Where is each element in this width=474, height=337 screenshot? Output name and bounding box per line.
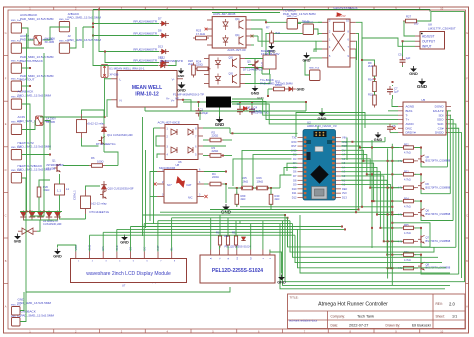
svg-text:R15: R15 [368, 92, 373, 96]
pad HEATOUT2BACK [11, 173, 21, 183]
svg-text:B: B [466, 259, 468, 263]
wire lcd pins [58, 245, 76, 252]
svg-text:100Ω: 100Ω [97, 159, 104, 163]
wire tc nest [232, 99, 386, 115]
svg-text:VF: VF [175, 97, 179, 101]
wire mid risers [199, 111, 201, 120]
svg-text:Q11 CUS10S30,H3F: Q11 CUS10S30,H3F [107, 133, 133, 137]
svg-text:10kΩ: 10kΩ [257, 179, 264, 183]
fuse XF2 [36, 116, 44, 126]
fuse XF3 [101, 65, 108, 78]
wire gnd pads [20, 292, 24, 311]
pad JBACK [59, 22, 69, 32]
svg-text:GND: GND [120, 241, 129, 245]
wire heatout pads [22, 67, 31, 69]
svg-text:SMD_Pad: SMD_Pad [11, 60, 22, 62]
svg-text:PAD_SMD_13.5x5.5MM: PAD_SMD_13.5x5.5MM [260, 81, 293, 85]
svg-text:RX0: RX0 [291, 140, 297, 144]
diode D16 [101, 185, 106, 189]
svg-text:GND: GND [318, 116, 327, 121]
svg-text:Q10 CUS10S30,H3F: Q10 CUS10S30,H3F [108, 187, 134, 191]
wire lcd bus [90, 215, 346, 235]
resistor R28 [192, 65, 196, 75]
wire arduino top gnd [321, 108, 323, 110]
svg-text:4.7kΩ: 4.7kΩ [404, 259, 411, 262]
svg-text:R7: R7 [266, 26, 270, 30]
svg-text:CUS10S30,H3F: CUS10S30,H3F [43, 222, 62, 226]
wire buzzer [254, 69, 256, 85]
power module U1 MEAN WELL IRM-10-12 [117, 71, 177, 108]
svg-text:D13: D13 [342, 195, 347, 199]
svg-text:ACPL-827-00: ACPL-827-00 [227, 48, 246, 52]
svg-text:U8: U8 [176, 163, 180, 167]
svg-text:GND: GND [53, 255, 62, 259]
svg-text:SMD_Pad: SMD_Pad [309, 67, 320, 69]
svg-text:D: D [466, 168, 468, 172]
diode D20 [20, 212, 26, 217]
resistor R40 [269, 194, 273, 204]
svg-text:HEATOUT: HEATOUT [20, 78, 35, 82]
nc mark U8 left [153, 182, 156, 185]
svg-text:BS170FTA_CS08898: BS170FTA_CS08898 [426, 185, 451, 189]
svg-text:E: E [5, 122, 7, 126]
capacitor C2 [239, 106, 241, 109]
svg-text:Atmega Hot Runner Controller: Atmega Hot Runner Controller [318, 302, 388, 308]
diode D17 [241, 237, 245, 241]
capacitor C3 [251, 106, 253, 109]
svg-text:NC*: NC* [167, 183, 172, 187]
pad J2 [59, 43, 69, 53]
pad ACIN2 [11, 43, 21, 53]
resistor R15 [373, 95, 377, 105]
svg-text:REV:: REV: [436, 302, 443, 306]
gnd arduino top [318, 113, 325, 117]
svg-text:DTC144EET1G: DTC144EET1G [90, 210, 110, 214]
resistor R4 [210, 182, 221, 186]
gnd meanwell V- [178, 71, 184, 74]
transistor rows Q6-Q8 [398, 144, 451, 274]
wire lcd loop [26, 212, 230, 292]
svg-text:E: E [466, 122, 468, 126]
svg-text:RFU02VSM6STR: RFU02VSM6STR [133, 31, 158, 35]
diode D13 [158, 44, 169, 54]
svg-text:G: G [466, 31, 468, 35]
resistor R14 [373, 82, 377, 92]
wire mid verticals [142, 117, 144, 236]
wire V+ rail [145, 110, 306, 112]
svg-text:DRDY#: DRDY# [406, 131, 417, 135]
wire k1 down [355, 57, 357, 212]
relay U12 coil [81, 196, 91, 209]
regulator U9 LM317 [420, 32, 445, 50]
svg-text:220Ω: 220Ω [196, 62, 203, 66]
svg-text:2kΩ: 2kΩ [188, 62, 193, 66]
svg-text:Date:: Date: [331, 323, 339, 327]
wire k1 right nest [356, 22, 362, 90]
pad TCBACK [287, 19, 298, 30]
svg-text:RFU02VSM6STR: RFU02VSM6STR [133, 47, 158, 51]
diode D21 [29, 212, 35, 217]
svg-text:D8: D8 [293, 178, 297, 182]
svg-text:Q7: Q7 [426, 236, 430, 240]
wire encoder [210, 218, 212, 250]
gnd c5 [410, 69, 417, 72]
svg-text:4.7kΩ: 4.7kΩ [404, 205, 411, 208]
arduino pins [291, 136, 348, 200]
svg-text:Q6: Q6 [426, 155, 430, 159]
wire trunk left-top [83, 10, 93, 28]
svg-text:PAD_SMD_13.5x5.5MM: PAD_SMD_13.5x5.5MM [20, 17, 54, 21]
svg-text:F1 MF-MSMF050-2-TP: F1 MF-MSMF050-2-TP [173, 92, 204, 96]
svg-text:Q05: Q05 [229, 57, 234, 59]
svg-text:DTC144EET1G: DTC144EET1G [96, 142, 116, 146]
resistor R3 [210, 154, 221, 158]
svg-text:Tech Tank: Tech Tank [357, 315, 374, 319]
optocoupler U4 ACPL-827-00CB [207, 17, 251, 48]
svg-text:SMD_Pad: SMD_Pad [11, 170, 22, 172]
svg-text:ACPL-827-00CE: ACPL-827-00CE [158, 120, 180, 124]
diode D22 [37, 212, 43, 217]
wire diode feeds [93, 23, 159, 25]
svg-text:Q05: Q05 [229, 73, 234, 75]
optocoupler U3 ACPL-827-00 [204, 55, 245, 87]
wire r31 [268, 88, 272, 90]
svg-text:1µF: 1µF [394, 90, 399, 94]
svg-text:waveshare 2inch LCD Display Mo: waveshare 2inch LCD Display Module [86, 271, 171, 277]
diode D24 [54, 212, 60, 217]
svg-text:V-: V- [172, 77, 175, 81]
resistor R2 [210, 138, 221, 142]
svg-text:2kΩ: 2kΩ [241, 197, 246, 201]
resistor R26 [37, 187, 41, 197]
nc mark U8 right [204, 195, 207, 198]
pad GND [12, 307, 21, 316]
wire u8 [204, 183, 208, 185]
diode D14 [289, 87, 293, 92]
svg-text:17.4kΩ: 17.4kΩ [196, 32, 205, 36]
svg-text:GND: GND [297, 88, 305, 92]
svg-text:Company:: Company: [331, 315, 346, 319]
svg-text:REF: REF [342, 187, 348, 191]
wire bundle peel-offs [430, 167, 459, 274]
svg-text:PAD_SMD_13.5x5.5MM: PAD_SMD_13.5x5.5MM [18, 145, 52, 149]
svg-text:BS170FTA_CS08898: BS170FTA_CS08898 [426, 159, 451, 163]
svg-text:R6: R6 [91, 156, 95, 160]
svg-text:R27: R27 [406, 15, 412, 19]
pad HEATOUTBACK [11, 63, 21, 73]
svg-text:7kΩ: 7kΩ [275, 31, 280, 35]
resistor R7 [270, 33, 274, 43]
svg-text:Q1: Q1 [52, 159, 56, 163]
diode D7 [158, 16, 169, 26]
svg-text:10kΩ: 10kΩ [242, 179, 249, 183]
pad ACINBACK [11, 99, 21, 109]
svg-text:RST: RST [291, 144, 297, 148]
svg-text:PAD_SMD_13.5x5.5MM: PAD_SMD_13.5x5.5MM [18, 301, 52, 305]
svg-text:SMD_Pad: SMD_Pad [11, 78, 22, 80]
inductor L1 [55, 184, 65, 195]
svg-text:OUTPUT: OUTPUT [422, 39, 435, 43]
svg-text:D: D [5, 168, 7, 172]
resistor R26b [257, 186, 268, 190]
wire meanwell top [93, 27, 158, 66]
svg-text:LM317TF_C30/430T: LM317TF_C30/430T [428, 26, 456, 30]
resistor R25b [242, 186, 253, 190]
wire encoder bus right [288, 218, 431, 247]
wire diode row [20, 211, 62, 213]
display module U7 waveshare LCD [71, 245, 187, 283]
wire arduino left bundle [233, 150, 455, 288]
gnd meanwell 2 [178, 85, 186, 89]
fuse F1 MF-MSMF050-2-TP [206, 97, 231, 108]
wire left trunks [26, 34, 28, 213]
nc marks U4 [205, 28, 208, 31]
title block grid [288, 294, 466, 329]
svg-text:A: A [466, 305, 468, 309]
svg-text:D8: D8 [158, 28, 162, 32]
svg-text:tech-tank.net/admin-docs: tech-tank.net/admin-docs [289, 320, 318, 323]
buzzer BUZZER1 [263, 55, 276, 69]
svg-text:IRM-10-12: IRM-10-12 [135, 92, 159, 98]
relay K1 [322, 19, 356, 67]
svg-text:D6: D6 [293, 170, 297, 174]
resistor R22 [234, 236, 237, 245]
svg-text:N/C: N/C [188, 196, 193, 200]
bridge D30 [22, 228, 28, 234]
diode D15 [101, 127, 106, 131]
optotriac U8 MOC3023M [157, 169, 204, 204]
svg-text:N: N [120, 98, 122, 102]
svg-text:4.7kΩ: 4.7kΩ [404, 179, 411, 182]
svg-text:BS170FTA_CS08898: BS170FTA_CS08898 [426, 212, 451, 216]
svg-text:GND: GND [215, 122, 224, 127]
svg-text:TITLE:: TITLE: [290, 295, 299, 299]
svg-text:2.0: 2.0 [449, 301, 455, 306]
svg-text:RFU02VSM6STR: RFU02VSM6STR [160, 59, 183, 63]
resistor R27 [406, 19, 417, 23]
svg-text:XF-00B: XF-00B [45, 40, 55, 44]
svg-text:220Ω: 220Ω [212, 175, 219, 179]
svg-text:A: A [5, 305, 7, 309]
svg-text:D12: D12 [292, 195, 297, 199]
nc mark u5 [392, 127, 395, 130]
wire u5 bundle [448, 111, 462, 278]
svg-text:C2(U)VXXXBACK: C2(U)VXXXBACK [333, 6, 357, 10]
resistor R10 [218, 236, 221, 245]
svg-text:D9: D9 [293, 183, 297, 187]
pad ACIN [11, 124, 21, 134]
marker K1 led [337, 12, 343, 16]
svg-text:SMD_Pad: SMD_Pad [303, 22, 314, 24]
transistor Q10 [102, 191, 104, 199]
transistor Q11 [101, 137, 103, 145]
svg-text:INPUT: INPUT [422, 44, 432, 48]
svg-text:0.33µF: 0.33µF [200, 111, 209, 115]
svg-text:B: B [5, 259, 7, 263]
svg-text:Q5: Q5 [247, 59, 251, 63]
svg-text:DAT: DAT [187, 183, 192, 187]
svg-text:ARDUINO_NANO_V3: ARDUINO_NANO_V3 [307, 124, 337, 128]
fuse XF1 [34, 36, 42, 46]
gnd tc [303, 55, 310, 58]
svg-text:D13: D13 [158, 44, 163, 48]
svg-text:GND: GND [14, 240, 22, 244]
wire pads top [22, 28, 34, 40]
svg-text:D10: D10 [292, 187, 297, 191]
resistor R9 [373, 66, 377, 76]
svg-text:Sheet:: Sheet: [436, 315, 445, 319]
wire V+ out [183, 100, 191, 111]
resistor R11 [226, 236, 229, 245]
svg-text:100: 100 [414, 22, 419, 26]
resistor R24 [197, 67, 208, 71]
resistor R6 [92, 164, 103, 168]
wire u6 right [203, 139, 208, 141]
wire tc pads [298, 23, 302, 25]
capacitor C7 [389, 86, 391, 89]
gnd transistor rows [375, 135, 382, 138]
svg-text:COM_1: COM_1 [73, 190, 77, 200]
svg-text:D7: D7 [158, 16, 162, 20]
pad TCplusBACK [303, 24, 314, 35]
svg-text:L1: L1 [66, 187, 70, 191]
svg-text:SMD_Pad: SMD_Pad [11, 305, 22, 307]
wire fuse [183, 101, 206, 103]
wire r25 net [228, 187, 242, 189]
svg-text:220Ω: 220Ω [212, 134, 219, 138]
svg-text:C5: C5 [398, 52, 402, 56]
svg-text:3V3: 3V3 [342, 191, 347, 195]
wire u5 caps [402, 55, 404, 57]
diode D12b symbol [161, 63, 165, 68]
junction encoder [344, 228, 346, 230]
svg-text:GND: GND [277, 281, 286, 285]
svg-text:SMD_Pad: SMD_Pad [11, 316, 22, 318]
transistor Q9 [254, 62, 256, 70]
wire lm317 [404, 21, 415, 36]
diode D12 [158, 55, 169, 65]
svg-text:MEAN WELL: MEAN WELL [132, 85, 162, 91]
gnd u8 [222, 207, 230, 211]
mcu module U2 Arduino Nano V3 [303, 130, 336, 201]
svg-text:SMD_Pad: SMD_Pad [11, 147, 22, 149]
svg-text:SMD_Pad: SMD_Pad [11, 122, 22, 124]
svg-text:BS170FTA_CS08898: BS170FTA_CS08898 [426, 239, 451, 243]
svg-text:C: C [5, 213, 7, 217]
transistor Q5 [254, 61, 256, 69]
optocoupler U6 ACPL-827-00CE [160, 125, 203, 160]
gnd bottom left [14, 236, 21, 239]
svg-text:GND: GND [374, 138, 383, 142]
svg-text:V+: V+ [166, 97, 170, 101]
pad HEATOUT2 [11, 150, 21, 160]
svg-text:XF-00B: XF-00B [110, 72, 119, 76]
gnd lcd mid [121, 237, 128, 240]
svg-text:SMD_Pad: SMD_Pad [11, 96, 22, 98]
svg-text:1µF: 1µF [406, 56, 411, 60]
svg-text:Eli Bukoski: Eli Bukoski [412, 324, 431, 328]
svg-text:D7: D7 [293, 174, 297, 178]
thermocouple IC U5 MAX31856 [398, 102, 451, 135]
wire relay U12 [86, 186, 101, 190]
svg-text:2kΩ: 2kΩ [275, 197, 280, 201]
svg-text:VIN: VIN [342, 136, 346, 140]
diode D23 [46, 212, 52, 217]
svg-text:1.1: 1.1 [57, 189, 61, 193]
resistor R09 [235, 194, 239, 204]
svg-text:D11: D11 [292, 191, 297, 195]
diode D8 [158, 28, 169, 38]
svg-text:C: C [466, 213, 468, 217]
wire transistor rows verticals [371, 140, 402, 285]
pad ACINJBACK [11, 23, 21, 33]
svg-text:GND: GND [178, 74, 186, 78]
wire opto outputs [251, 20, 322, 22]
resistor R31 [274, 87, 285, 91]
wire q1 r6 [63, 165, 89, 167]
gnd lcd left [54, 251, 61, 254]
svg-text:1/1: 1/1 [452, 315, 457, 319]
wire arduino right staircase [341, 137, 399, 269]
wire meanwell left [40, 78, 105, 117]
svg-text:HEATOUTBACK: HEATOUTBACK [20, 59, 44, 63]
svg-text:U7: U7 [122, 283, 126, 287]
gnd u5 area [418, 81, 426, 85]
svg-text:RFU02VSM6STR: RFU02VSM6STR [133, 19, 158, 23]
svg-text:PAD_SMD_13.5x5.5MM: PAD_SMD_13.5x5.5MM [68, 16, 102, 20]
svg-text:2kΩ: 2kΩ [368, 64, 373, 68]
svg-text:DVDD: DVDD [435, 131, 444, 135]
capacitor C1 [198, 108, 200, 111]
svg-text:PAD_SMD_13.5x5.5MM: PAD_SMD_13.5x5.5MM [68, 38, 102, 42]
capacitor C6 [389, 124, 391, 127]
svg-text:4.7kΩ: 4.7kΩ [404, 152, 411, 155]
resistor R23 [196, 36, 207, 40]
svg-text:G: G [5, 31, 7, 35]
svg-text:Q04: Q04 [235, 19, 240, 21]
svg-text:PEL12D-2255S-S1024: PEL12D-2255S-S1024 [212, 268, 263, 274]
gnd encoder [278, 277, 285, 280]
svg-text:220Ω: 220Ω [212, 149, 219, 153]
svg-text:FT12055-G/5V: FT12055-G/5V [261, 52, 280, 56]
pad GNDBACK [12, 318, 21, 327]
svg-text:Drawn By:: Drawn By: [386, 323, 401, 327]
svg-text:SMD_Pad: SMD_Pad [287, 16, 298, 18]
wire arduino rx long [230, 132, 298, 134]
svg-text:DTC144EET1G: DTC144EET1G [243, 67, 263, 71]
svg-text:GND: GND [417, 84, 428, 89]
relay U11 coil [77, 120, 87, 133]
svg-text:D6: D6 [426, 182, 430, 186]
svg-text:R14: R14 [368, 77, 373, 81]
svg-text:D3: D3 [293, 157, 297, 161]
svg-text:TX1: TX1 [292, 136, 297, 140]
nc mark d4 [244, 107, 248, 111]
svg-text:ADJUST: ADJUST [422, 34, 434, 38]
svg-text:XF-00B: XF-00B [46, 166, 55, 170]
transistor Q1 [56, 164, 58, 172]
svg-text:GND: GND [251, 92, 260, 96]
wire relay U11 [82, 110, 105, 124]
svg-text:Q6: Q6 [426, 209, 430, 213]
svg-text:4.7kΩ: 4.7kΩ [404, 232, 411, 235]
gnd r7 [268, 46, 274, 49]
svg-text:PAD_SMD_13.5x5.5MM: PAD_SMD_13.5x5.5MM [18, 93, 52, 97]
svg-text:2022-07-27: 2022-07-27 [349, 324, 368, 328]
pad HEATOUT [11, 81, 21, 91]
svg-text:RFU02VSM6STR: RFU02VSM6STR [133, 58, 158, 62]
svg-text:Q04: Q04 [235, 35, 240, 37]
